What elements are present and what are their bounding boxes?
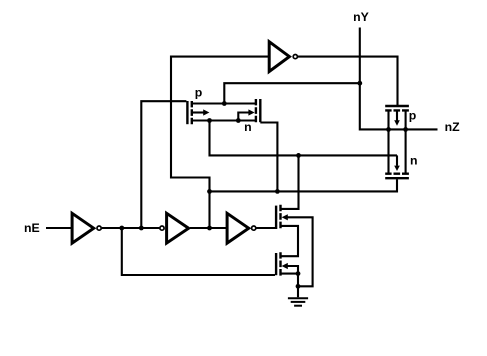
transistor N1 bulk arrow from bottom rail: [238, 113, 249, 121]
transistor N3 bulk arrow to ground column: [287, 217, 313, 286]
transistor Q4 bulk arrow from node row y155: [396, 155, 398, 165]
node B junction dot on U2-U3 wire: [207, 226, 212, 231]
node A junction dot left: [119, 226, 124, 231]
wire transmission-gate top rail to nY: [224, 83, 359, 103]
transistor N4 nmos (pull-down stack bottom): [276, 252, 280, 275]
node nY junction dot: [357, 81, 362, 86]
ground symbol: [288, 298, 308, 305]
svg-text:p: p: [409, 108, 417, 122]
node junction dot N4 source: [296, 271, 301, 276]
wire TG bottom rail to internal node row y155: [210, 121, 398, 156]
wire N3 drain up to node row y155: [281, 155, 299, 209]
node B junction dot at y191: [207, 189, 212, 194]
wire U2 output to U3 input: [190, 227, 227, 229]
wire nE input: [46, 227, 71, 229]
wire U4 input from node B column: [171, 57, 269, 228]
wire node A down to N4 gate: [122, 228, 275, 275]
transistor P1 bulk arrow: [192, 111, 204, 113]
transistor N1 nmos pass (right of transmission gate): [256, 99, 260, 122]
node nZ junction dot right rail: [403, 127, 408, 132]
wire TG bottom rail: [192, 119, 256, 121]
svg-text:n: n: [244, 120, 252, 134]
node B junction dot at x277: [275, 189, 280, 194]
node A junction dot right: [139, 226, 144, 231]
op-amp U4 inverter top: [269, 42, 289, 72]
transistor Q3 pmos (output stage top): [385, 106, 409, 110]
op-amp U3 inverter: [227, 213, 249, 243]
node junction dot y155 at x298: [296, 153, 301, 158]
wire U4 output to Q3 gate: [298, 57, 398, 106]
svg-text:nY: nY: [353, 10, 369, 24]
node junction dot TG bottom rail left: [207, 118, 212, 123]
wire Q3/Q4 right rail: [405, 110, 407, 173]
svg-text:n: n: [410, 154, 418, 168]
node nZ junction dot left rail: [386, 127, 391, 132]
wire U3 output to N3 gate: [256, 227, 276, 229]
svg-text:p: p: [195, 85, 203, 99]
transistor Q3 bulk arrow: [396, 110, 398, 120]
wire TG top rail: [192, 102, 256, 104]
wire N1 gate lead down to net B: [260, 123, 277, 192]
wire node A up to P1 gate: [141, 101, 186, 228]
wire U1 output to U2 input: [102, 227, 160, 229]
transistor N3 nmos (pull-down stack top): [276, 205, 280, 229]
transistor Q4 nmos (output stage bottom): [385, 174, 409, 179]
wire N3 source to N4 drain: [281, 226, 299, 256]
wire N4 source to ground: [281, 274, 299, 298]
wire net B row y191 to Q4 gate: [210, 179, 398, 191]
node junction dot on TG top rail: [222, 101, 227, 106]
transistor P1 pmos pass (left of transmission gate): [187, 101, 191, 124]
node junction dot TG bottom rail right: [236, 118, 241, 123]
op-amp U1 inverter: [72, 213, 94, 243]
wire nY down to nZ row: [360, 28, 438, 130]
node junction dot ground: [296, 284, 301, 289]
transistor N4 bulk arrow to source: [287, 266, 298, 274]
svg-text:nE: nE: [24, 221, 40, 235]
op-amp U2 inverter (input bubble): [160, 226, 164, 230]
wire Q3/Q4 left rail: [387, 110, 389, 173]
svg-text:nZ: nZ: [445, 120, 461, 134]
